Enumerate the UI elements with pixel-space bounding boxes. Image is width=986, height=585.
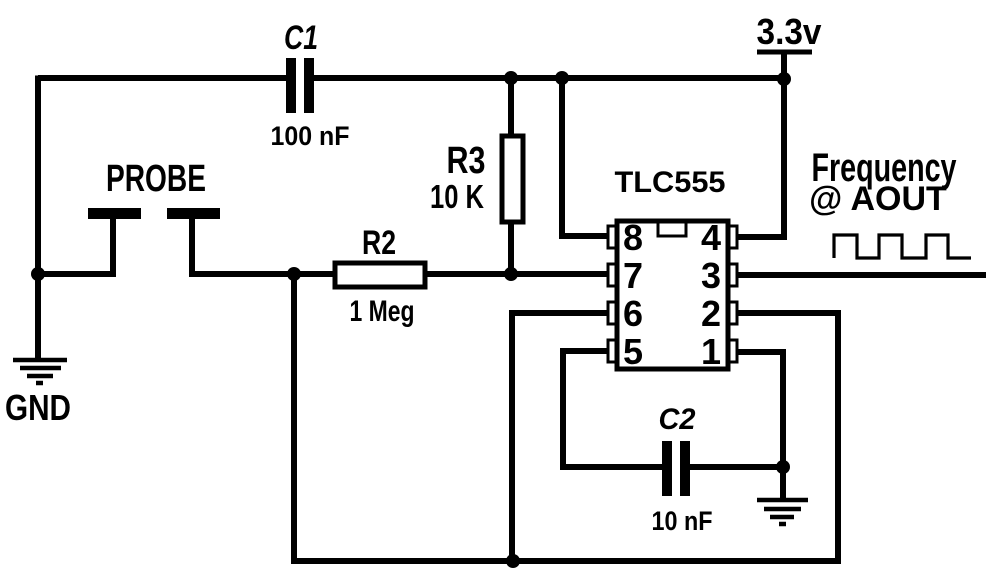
label C1 — [284, 19, 318, 57]
svg-text:10 K: 10 K — [430, 178, 484, 215]
svg-text:C2: C2 — [659, 403, 696, 436]
wire R2 to pin7 — [425, 271, 609, 277]
probe pad left — [88, 208, 141, 219]
label Frequency — [812, 146, 958, 190]
wire pin5 branch to C2 — [563, 351, 662, 467]
label R3 — [447, 140, 486, 182]
pin number 5 — [623, 331, 643, 372]
label C2 — [659, 403, 696, 436]
svg-text:8: 8 — [623, 217, 643, 258]
wire R3 bottom lead — [508, 220, 514, 277]
pin box 3 — [726, 264, 737, 286]
pin number 6 — [623, 293, 643, 334]
node junction top rail / pin8 branch — [555, 71, 569, 85]
node junction R2 left / bottom loop — [287, 267, 301, 281]
value 10 K — [430, 178, 484, 215]
wire bottom rail — [291, 558, 841, 564]
svg-text:1 Meg: 1 Meg — [350, 295, 415, 328]
wire bottom loop left vertical — [291, 274, 297, 564]
label @ AOUT — [809, 180, 947, 218]
svg-text:3.3v: 3.3v — [757, 11, 822, 52]
pin box 6 — [608, 302, 619, 324]
value 1 Meg — [350, 295, 415, 328]
svg-text:1: 1 — [701, 331, 721, 372]
svg-text:R2: R2 — [362, 224, 396, 262]
node junction top rail / 3.3v — [777, 72, 791, 86]
wire C2 right lead — [690, 464, 783, 470]
svg-text:10 nF: 10 nF — [652, 506, 713, 536]
pin box 5 — [608, 340, 619, 362]
capacitor C1 — [286, 58, 314, 113]
value 100 nF — [271, 121, 350, 151]
ground (at C2) — [757, 467, 808, 524]
pin number 1 — [701, 331, 721, 372]
wire to left probe pad — [38, 216, 113, 274]
label PROBE — [106, 158, 206, 200]
node junction top rail / R3 — [504, 71, 518, 85]
pin box 1 — [726, 340, 737, 362]
node junction R3 bottom — [504, 267, 518, 281]
ground (left GND) — [13, 360, 67, 383]
label GND — [5, 387, 71, 428]
power label 3.3v — [757, 11, 822, 52]
pin box 4 — [726, 226, 737, 248]
resistor R2 — [335, 263, 425, 287]
value 10 nF — [652, 506, 713, 536]
svg-text:5: 5 — [623, 331, 643, 372]
pin box 2 — [726, 302, 737, 324]
pin number 4 — [701, 217, 721, 258]
pin box 7 — [608, 264, 619, 286]
IC U1 TLC555 body — [617, 221, 728, 369]
svg-text:100 nF: 100 nF — [271, 121, 350, 151]
pin number 8 — [623, 217, 643, 258]
wire from right probe pad — [192, 216, 335, 274]
wire top rail right segment — [314, 75, 784, 81]
pin number 7 — [623, 255, 643, 296]
pin number 2 — [701, 293, 721, 334]
svg-text:6: 6 — [623, 293, 643, 334]
svg-text:7: 7 — [623, 255, 643, 296]
wire pin3 output — [737, 272, 986, 278]
label TLC555 — [615, 166, 726, 199]
svg-text:C1: C1 — [284, 19, 318, 57]
svg-text:2: 2 — [701, 293, 721, 334]
svg-text:4: 4 — [701, 217, 721, 258]
wire R3 top lead — [508, 78, 514, 140]
pin number 3 — [701, 255, 721, 296]
wire top rail left segment — [38, 76, 286, 79]
square wave symbol — [834, 235, 971, 258]
wire 3.3v stub — [781, 52, 787, 80]
wire left vertical GND branch — [35, 76, 41, 358]
svg-text:GND: GND — [5, 387, 71, 428]
svg-text:TLC555: TLC555 — [615, 166, 726, 199]
resistor R3 — [502, 136, 523, 222]
node junction left rail / probe net — [31, 267, 45, 281]
op-amp U1 pin box 8 — [608, 226, 619, 248]
wire pin6 branch — [512, 313, 609, 561]
label R2 — [362, 224, 396, 262]
svg-text:@ AOUT: @ AOUT — [809, 180, 947, 218]
node junction C2 / ground — [776, 460, 790, 474]
probe pad right — [167, 208, 220, 219]
node junction bottom rail / pin6 — [506, 554, 520, 568]
capacitor C2 — [662, 441, 690, 496]
svg-text:PROBE: PROBE — [106, 158, 206, 200]
power 3.3v bar — [757, 50, 812, 55]
svg-text:R3: R3 — [447, 140, 486, 182]
wire pin2 branch right vertical — [737, 313, 838, 561]
svg-text:3: 3 — [701, 255, 721, 296]
wire pin4 branch — [737, 79, 784, 237]
IC notch — [658, 222, 686, 236]
wire pin1 branch — [737, 352, 783, 467]
wire pin8 branch — [562, 78, 609, 236]
